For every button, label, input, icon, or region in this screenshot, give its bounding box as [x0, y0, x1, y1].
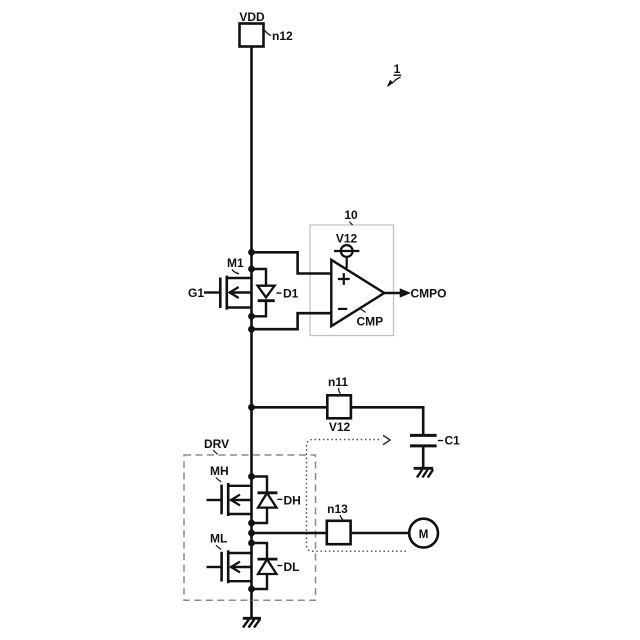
wire n13 to motor [351, 532, 409, 535]
svg-text:M1: M1 [227, 256, 244, 270]
label n11 [328, 375, 348, 394]
transistor MH [207, 483, 252, 516]
svg-text:CMP: CMP [357, 315, 384, 329]
leader to n12 [265, 31, 272, 36]
label DRV [204, 437, 229, 455]
terminal box n13 [327, 521, 351, 544]
svg-text:ML: ML [210, 532, 227, 546]
label 10 [344, 208, 358, 225]
svg-text:V12: V12 [329, 420, 351, 434]
figure number 1 [394, 62, 402, 76]
svg-text:10: 10 [344, 208, 358, 222]
svg-text:n12: n12 [272, 29, 293, 43]
comparator enclosure box 10 [310, 225, 394, 336]
node C junction dot (D1 bottom) [248, 313, 255, 320]
dotted arrowhead [383, 435, 390, 444]
ground (C1) [414, 468, 434, 477]
label CMP [357, 308, 384, 329]
label V12 (node n11 voltage) [329, 420, 351, 434]
label DH [278, 494, 301, 508]
op-amp CMP [331, 260, 384, 326]
label G1 [188, 286, 204, 300]
svg-text:V12: V12 [336, 232, 358, 246]
svg-text:C1: C1 [445, 434, 461, 448]
svg-text:1: 1 [394, 62, 401, 76]
label V12 (comparator reference) [336, 232, 358, 246]
node A junction dot (CMP + branch) [248, 249, 255, 256]
svg-text:D1: D1 [283, 287, 299, 301]
wire CMP + input [252, 252, 332, 273]
svg-text:DH: DH [284, 494, 301, 508]
voltage source V12 [334, 245, 359, 268]
wire CMP - input [252, 313, 332, 329]
node n13 junction dot [248, 530, 255, 537]
svg-text:CMPO: CMPO [411, 286, 447, 300]
node F junction dot (DH bottom) [248, 520, 255, 527]
ground (main) [243, 618, 261, 627]
node n11 junction dot [248, 404, 255, 411]
node H junction dot (DL bottom) [248, 586, 255, 593]
svg-text:n13: n13 [327, 502, 348, 516]
label DL [278, 560, 300, 574]
svg-text:G1: G1 [188, 286, 204, 300]
label D1 [277, 287, 299, 301]
svg-text:MH: MH [210, 464, 229, 478]
capacitor C1 [410, 435, 437, 468]
wire CMP output with arrow [384, 290, 409, 297]
node E junction dot (DH top) [248, 473, 255, 480]
label n12 [272, 29, 293, 43]
transistor ML [207, 550, 252, 583]
node D junction dot (CMP - branch) [248, 326, 255, 333]
wire main vertical VDD to ground [250, 47, 253, 619]
wire n13 branch [252, 532, 328, 535]
label n13 [327, 502, 348, 520]
dotted signal path arrow [307, 440, 407, 552]
svg-text:DRV: DRV [204, 437, 229, 451]
motor M [409, 519, 438, 548]
terminal box n12 [240, 24, 264, 47]
label C1 [438, 434, 460, 448]
terminal box n11 [327, 395, 351, 418]
node B junction dot (D1 top) [248, 266, 255, 273]
label CMPO [411, 286, 447, 300]
leader arrow for figure number 1 [388, 77, 401, 86]
diode DH [252, 477, 278, 524]
label M1 [227, 256, 244, 274]
wire n11 to C1 [351, 407, 423, 435]
label VDD [239, 10, 265, 24]
svg-text:M: M [419, 529, 429, 541]
svg-text:DL: DL [284, 560, 300, 574]
diode D1 [252, 269, 275, 316]
transistor M1 [204, 276, 252, 310]
label MH [210, 464, 229, 482]
wire n11 branch [252, 406, 328, 409]
diode DL [252, 543, 278, 589]
driver block DRV dashed box [184, 455, 316, 600]
node G junction dot (DL top) [248, 540, 255, 547]
svg-text:n11: n11 [328, 375, 348, 389]
label ML [210, 532, 227, 550]
svg-text:VDD: VDD [239, 10, 265, 24]
